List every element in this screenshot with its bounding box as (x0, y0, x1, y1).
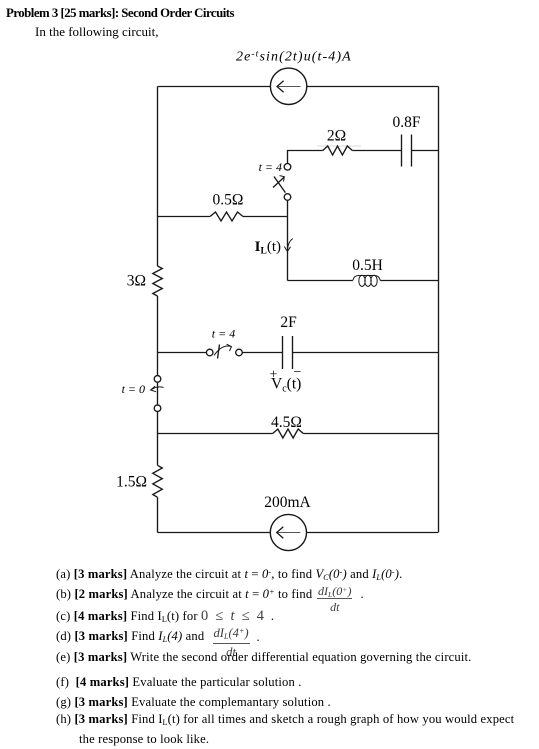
resistor R 4.5ohm (273, 429, 304, 438)
wire 0.5ohm row left (158, 216, 211, 218)
svg-text:200mA: 200mA (264, 494, 311, 511)
wire 0.5ohm row right to middle branch (243, 216, 288, 218)
wire top rail right segment (307, 86, 439, 88)
svg-text:4.5Ω: 4.5Ω (271, 414, 302, 431)
wire middle branch: switch to 0.5H row (287, 200, 289, 280)
question (h) line 2 (79, 733, 209, 746)
svg-text:t = 4: t = 4 (259, 160, 282, 174)
current source I1 arrow (points left) (277, 81, 301, 93)
resistor R 2ohm (323, 146, 353, 155)
wire 2ohm to 0.8F (352, 150, 401, 152)
switch t=4 (horizontal, closes at t=4) (206, 344, 242, 358)
wire 0.8F to right rail (412, 150, 439, 152)
current source I1 (circle) (270, 68, 306, 104)
arrowhead I_L(t) (284, 247, 290, 252)
switch t=4 (vertical, opens at t=4) (273, 164, 291, 201)
label source value 2e^-t sin(2t)u(t-4)A (236, 50, 352, 65)
question (h) line 1 (56, 713, 514, 726)
switch t=0 (on left rail, opens at t=0) (151, 376, 164, 412)
wire top rail left segment (158, 86, 271, 88)
wire bottom rail right (307, 532, 439, 534)
svg-text:3Ω: 3Ω (127, 273, 146, 290)
capacitor C 2F (plates) (283, 336, 293, 369)
svg-text:1.5Ω: 1.5Ω (116, 474, 147, 491)
current source I2 arrow (points left) (277, 527, 301, 539)
question (g) (56, 696, 331, 709)
svg-text:2F: 2F (280, 314, 297, 331)
question (a) (56, 568, 402, 581)
faint artifact line over 2ohm (317, 145, 361, 147)
question (f) (56, 676, 302, 689)
question (e) (56, 651, 471, 664)
svg-text:t = 4: t = 4 (212, 327, 235, 341)
svg-text:2e-tsin(2t)u(t-4)A: 2e-tsin(2t)u(t-4)A (236, 50, 352, 65)
wire 2ohm row: corner from switch top up and right (288, 151, 323, 164)
wire right rail (438, 87, 440, 533)
current arrow I_L(t) (288, 239, 293, 250)
svg-text:IL(t): IL(t) (255, 239, 281, 257)
wire left rail bottom (157, 497, 159, 532)
svg-text:t = 0: t = 0 (122, 382, 145, 396)
svg-text:0.8F: 0.8F (393, 114, 421, 131)
fraction dIL(0+)/dt (317, 585, 352, 613)
subtitle (35, 25, 158, 38)
capacitor C 0.8F (plates) (402, 135, 412, 167)
wire 0.5H to right rail (380, 280, 438, 282)
resistor R 0.5ohm (210, 212, 243, 221)
svg-text:Vc(t): Vc(t) (271, 376, 301, 395)
wire 2F row from left rail to switch (158, 352, 207, 354)
question (b) (56, 588, 312, 601)
question (d) (56, 630, 204, 643)
wire bottom rail left (158, 532, 271, 534)
wire 0.5H row left (288, 280, 353, 282)
svg-text:2Ω: 2Ω (327, 128, 346, 145)
fraction dIL(4+)/dt (213, 626, 250, 660)
svg-text:0.5H: 0.5H (352, 257, 383, 274)
resistor R 1.5ohm (153, 465, 163, 497)
wire 4.5ohm row left (158, 433, 273, 435)
wire switch to 2F (242, 352, 282, 354)
wire 4.5ohm to right rail (303, 433, 438, 435)
wire left rail: top to 3ohm (157, 87, 159, 267)
title (6, 7, 234, 20)
inductor L 0.5H (loops) (353, 275, 381, 286)
circuit SVG placeholder (0, 0, 539, 564)
resistor R 3ohm (153, 266, 163, 296)
wire left rail: 3ohm to switch t=0 (157, 296, 159, 376)
wire 2F to right rail (293, 352, 439, 354)
question (c) (56, 609, 274, 623)
wire left rail: switch to 1.5ohm (157, 412, 159, 466)
svg-text:0.5Ω: 0.5Ω (213, 192, 244, 209)
current source I2 200mA (circle) (270, 514, 306, 550)
